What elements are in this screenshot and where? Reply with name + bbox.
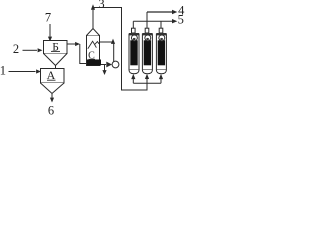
shoulder band 1 (129, 33, 139, 35)
underline of C (89, 58, 96, 60)
arrowhead stream6 down (50, 98, 54, 103)
wire B to column C (67, 43, 76, 45)
sight circle 2 (145, 35, 151, 41)
column C (scrubber body) (87, 36, 100, 66)
arrowhead recirculation up (111, 39, 115, 44)
body 3 (156, 34, 166, 70)
packing zigzag inside C (88, 41, 99, 49)
charge (black fill) 2 (144, 40, 151, 65)
riser wire 1 (132, 21, 134, 28)
underline of A (47, 79, 56, 81)
arrowhead stream4 right (172, 10, 177, 14)
wire stream3 top run and down to bottom manifold (93, 8, 147, 91)
arrowhead into vessel1 (131, 74, 135, 79)
charge (black fill) 1 (130, 40, 137, 65)
hopper of B (44, 54, 68, 66)
wire B to A (55, 66, 57, 69)
svg-text:2: 2 (13, 42, 19, 56)
adsorber vessel 2 (142, 12, 152, 74)
svg-text:7: 7 (45, 10, 51, 24)
sight circle mark 3 (160, 38, 163, 40)
arrowhead stream5 right (172, 19, 177, 23)
sight circle 1 (131, 35, 137, 41)
drain branch wire (104, 65, 106, 71)
svg-text:3: 3 (98, 0, 104, 11)
riser wire 3 (160, 21, 162, 28)
recirculation wire into column (100, 41, 114, 43)
arrowhead stream2 right (38, 48, 43, 52)
stem wire vessel3 (160, 79, 162, 83)
bottom cap 3 (156, 70, 166, 74)
apparatus B (box) (44, 41, 68, 54)
bottom cross manifold wire vessels 1-3 (133, 82, 161, 84)
body 1 (129, 34, 139, 70)
svg-text:1: 1 (0, 63, 6, 77)
arrowhead into adsorber2 bottom (145, 74, 149, 79)
neck 1 (132, 28, 136, 33)
wire sump to pump suction (101, 64, 106, 66)
sight circle mark 1 (133, 38, 136, 40)
neck 2 (145, 28, 149, 33)
bottom cap 1 (129, 70, 139, 74)
arrowhead stream3 up (91, 4, 95, 10)
adsorber vessel 3 (156, 21, 166, 83)
top manifold wire vessel2 to stream4 (147, 11, 172, 13)
stack wire up from column (92, 9, 94, 29)
underline of B (51, 50, 60, 52)
sight circle 3 (159, 35, 165, 41)
wire feed down into column sump (80, 44, 87, 64)
neck 3 (159, 28, 163, 33)
arrowhead drain down (102, 70, 106, 75)
pump discharge wire up (113, 42, 115, 62)
sight circle mark 2 (146, 38, 149, 40)
arrowhead feed right (75, 42, 80, 46)
body 2 (142, 34, 152, 70)
arrowhead into vessel3 (159, 74, 163, 79)
apparatus A (box) (41, 69, 65, 84)
wire stream2 into box B (23, 49, 38, 51)
check valve (solid triangle) (106, 62, 112, 68)
wire stream7 into box B (49, 24, 51, 38)
sump (black liquid level) (87, 60, 101, 66)
pump P (circle) (112, 61, 119, 68)
riser wire 2 (146, 12, 148, 28)
shoulder band 2 (142, 33, 152, 35)
arrowhead stream7 down (48, 37, 52, 42)
arrowhead stream1 right (36, 69, 41, 73)
svg-text:6: 6 (48, 104, 54, 118)
shoulder band 3 (156, 33, 166, 35)
svg-text:5: 5 (178, 13, 184, 27)
charge (black fill) 3 (158, 40, 165, 65)
adsorber vessel 1 (129, 21, 139, 83)
column C roof (87, 29, 100, 36)
top manifold wire vessels1+3 to stream5 (133, 20, 172, 22)
hopper of A (41, 83, 65, 94)
wire stream1 into box A (9, 71, 36, 73)
bottom cap 2 (142, 70, 152, 74)
stem wire vessel1 (132, 79, 134, 83)
wire A outlet down (51, 94, 53, 99)
